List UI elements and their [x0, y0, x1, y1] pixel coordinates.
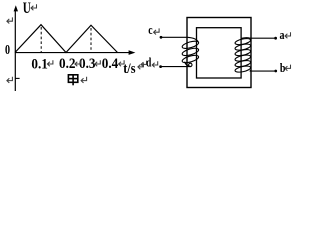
iron core outer rectangle — [187, 18, 251, 88]
terminal a dot — [274, 37, 277, 40]
label jia (Chinese character for figure A) drawn as strokes — [68, 75, 77, 86]
svg-text:0.2: 0.2 — [59, 55, 75, 72]
svg-text:0.4: 0.4 — [102, 55, 118, 72]
iron core inner rectangle — [197, 28, 242, 78]
pilcrow after U — [31, 4, 37, 10]
svg-text:0.3: 0.3 — [79, 55, 95, 72]
pilcrow after 0.3 — [95, 60, 101, 66]
y-axis arrowhead — [14, 5, 18, 11]
dashed line at second peak — [90, 28, 92, 52]
terminal c dot — [160, 36, 163, 39]
pilcrow after b — [285, 65, 291, 71]
svg-text:d: d — [146, 56, 152, 70]
pilcrow after c — [154, 28, 160, 34]
pilcrow after t/s — [138, 63, 144, 69]
label 0.2 — [59, 55, 75, 72]
label 0.1 — [31, 56, 47, 73]
svg-text:0: 0 — [5, 41, 10, 57]
wire secondary bottom to terminal b — [250, 70, 275, 72]
pilcrow before d — [141, 61, 147, 67]
terminal c label — [148, 24, 152, 37]
pilcrow after 0.1 — [47, 60, 53, 66]
svg-text:0.1: 0.1 — [31, 56, 47, 73]
y-axis — [14, 9, 16, 91]
pilcrow left margin bottom — [7, 77, 12, 83]
label 0.3 — [79, 55, 95, 72]
svg-text:c: c — [148, 24, 152, 37]
pilcrow after a — [285, 32, 291, 38]
x-axis arrowhead — [129, 50, 136, 55]
pilcrow after d — [152, 61, 158, 67]
svg-text:t/s: t/s — [123, 60, 135, 76]
secondary coil (6 turns, right limb) — [235, 37, 252, 73]
wire d to primary coil — [161, 66, 191, 68]
terminal a label — [280, 29, 285, 42]
primary coil (3 turns, left limb) — [181, 37, 199, 66]
triangular waveform — [15, 25, 118, 53]
terminal d label — [146, 56, 152, 70]
label 0 (origin) — [5, 41, 10, 57]
pilcrow after 0.2 — [75, 60, 81, 66]
pilcrow after jia — [81, 77, 87, 83]
label U — [23, 0, 31, 16]
wire secondary top to terminal a — [250, 37, 275, 39]
terminal b label — [280, 62, 286, 75]
pilcrow left margin top — [7, 17, 12, 23]
x-axis — [15, 52, 130, 54]
terminal d dot — [159, 65, 162, 68]
terminal b dot — [274, 70, 277, 73]
svg-text:a: a — [280, 29, 285, 42]
label 0.4 — [102, 55, 118, 72]
pilcrow after 0.4 — [119, 60, 125, 66]
wire c to primary coil — [162, 36, 188, 38]
tick on y-axis below origin — [15, 77, 19, 79]
svg-text:b: b — [280, 62, 286, 75]
svg-text:U: U — [23, 0, 31, 16]
dashed line at first peak — [40, 27, 42, 52]
label t/s — [123, 60, 135, 76]
